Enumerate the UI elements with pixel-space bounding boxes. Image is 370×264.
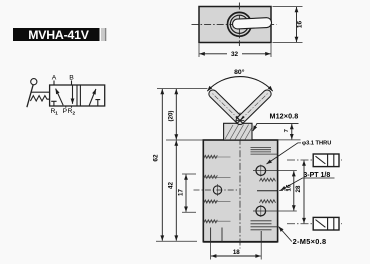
hatch band 2: [204, 175, 218, 178]
side fitting bottom: [287, 217, 342, 230]
top thread lines: [251, 148, 278, 155]
svg-text:φ3.1 THRU: φ3.1 THRU: [302, 140, 331, 146]
bottom port stubs: [66, 106, 72, 108]
dim 32 extension lines: [199, 44, 271, 58]
top hole vertical tick: [260, 165, 262, 177]
knob outer circle: [228, 12, 252, 36]
right hatch band upper: [260, 178, 276, 181]
lever arm: [27, 85, 33, 108]
vertical centerline front: [239, 113, 241, 249]
dim 16 extension lines: [273, 7, 303, 43]
port B stub: [71, 81, 73, 86]
svg-text:(20): (20): [167, 110, 174, 121]
return spring: [30, 96, 49, 101]
box divider left: [76, 85, 78, 106]
bottom hole vertical tick: [260, 205, 262, 217]
flow path A-P diagonal: [56, 89, 64, 106]
svg-text:7: 7: [284, 129, 290, 132]
vertical centerline: [238, 3, 240, 47]
svg-text:42: 42: [167, 182, 174, 189]
svg-text:17: 17: [178, 189, 185, 196]
hole centerline vertical tick: [217, 184, 219, 196]
middle port line: [257, 190, 278, 192]
3-PT 1/8 callout: [281, 172, 335, 190]
svg-text:18: 18: [233, 249, 240, 256]
extension line top: [157, 88, 208, 90]
middle centerline stub: [279, 190, 289, 192]
hatch band 1: [204, 155, 218, 158]
right outer dim 28: [295, 161, 304, 224]
body bottom edge reinforcement: [203, 241, 277, 243]
svg-text:2: 2: [73, 111, 76, 116]
knob inner circle: [230, 15, 248, 33]
svg-text:1: 1: [55, 111, 58, 116]
svg-text:16: 16: [297, 21, 304, 29]
dim 17 line: [185, 175, 187, 212]
dim 42 line: [175, 141, 177, 241]
blocked port T right: [95, 100, 100, 106]
top view housing: [199, 7, 271, 43]
svg-text:A: A: [52, 75, 57, 82]
box divider right: [79, 85, 81, 106]
swing arc 80 deg: [207, 77, 272, 92]
hatch band 4: [204, 220, 218, 223]
schematic symbol group: [27, 79, 105, 108]
valve body front: [203, 140, 277, 242]
dim 7 boss height: [278, 124, 301, 140]
svg-text:80°: 80°: [234, 68, 245, 76]
flow path B-R2 vertical: [72, 86, 74, 104]
left mounting hole: [194, 184, 238, 196]
extension line bottom: [156, 240, 197, 242]
svg-text:M12×0.8: M12×0.8: [270, 112, 299, 121]
blocked port T left: [51, 101, 56, 106]
mounting hole bottom right: [256, 206, 266, 216]
dim 32 line: [200, 53, 228, 55]
svg-text:62: 62: [153, 154, 160, 162]
M12 thread callout: [253, 112, 299, 131]
crossed flow diagonal right box: [89, 89, 96, 106]
extension line body top: [166, 139, 203, 141]
right port features: [251, 148, 289, 230]
top view group: [192, 3, 304, 59]
lever knob circle: [31, 79, 37, 85]
right hatch band lower: [260, 200, 276, 203]
bottom exhaust slots: [211, 228, 262, 242]
lever right position: [234, 88, 272, 126]
link rod: [31, 91, 50, 93]
svg-text:MVHA-41V: MVHA-41V: [28, 28, 90, 42]
port depth lines: [204, 157, 231, 221]
lever left position: [207, 88, 245, 126]
valve body box: [50, 85, 105, 106]
dim 18 line: [211, 255, 261, 257]
mounting hole top right: [256, 166, 266, 176]
front view group: [203, 68, 277, 249]
bottom thread lines: [251, 221, 278, 230]
dim 16 line: [296, 7, 298, 42]
dim 17 extension ticks: [182, 174, 196, 212]
title label MVHA-41V: [13, 28, 106, 42]
right inner dim 16: [253, 171, 297, 211]
phi 3.1 thru callout: [267, 140, 332, 164]
port A stub: [53, 81, 55, 86]
ext lines: [211, 242, 262, 260]
schematic port labels: [51, 75, 76, 116]
svg-text:16: 16: [285, 184, 292, 191]
2-M5 callout: [279, 227, 327, 246]
hole centerline horizontal: [194, 189, 238, 191]
bottom dimension 18: [211, 242, 262, 260]
left side port hatches: [204, 155, 231, 223]
dim 62 line: [161, 89, 163, 241]
svg-text:28: 28: [295, 185, 302, 192]
threaded boss M12: [224, 123, 252, 140]
pivot mark: [235, 116, 244, 124]
svg-text:B: B: [69, 75, 74, 82]
left dimensions: [153, 89, 208, 242]
horizontal centerline: [192, 23, 277, 25]
handle paddle: [232, 18, 271, 30]
hatch band 3: [204, 200, 218, 203]
side fitting top: [287, 154, 342, 167]
svg-text:2-M5×0.8: 2-M5×0.8: [293, 237, 327, 246]
dim (20) line: [175, 89, 177, 140]
svg-text:32: 32: [231, 51, 239, 58]
